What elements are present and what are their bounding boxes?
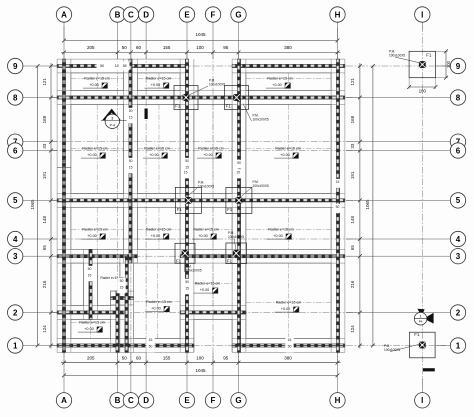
footing F1 I-9: [409, 51, 435, 77]
svg-text:Radier e=15 cm: Radier e=15 cm: [144, 147, 169, 151]
svg-text:+0.00: +0.00: [87, 153, 97, 157]
dimension chain top: [61, 45, 341, 54]
svg-text:+0.00: +0.00: [151, 234, 161, 238]
wall wall x90: [84, 249, 98, 319]
svg-text:Radier e=15 cm: Radier e=15 cm: [82, 147, 107, 151]
svg-text:Radier e=15 cm: Radier e=15 cm: [267, 77, 292, 81]
section symbol at I row 2: [414, 309, 433, 325]
svg-text:H: H: [335, 396, 341, 405]
svg-text:Radier e=15 cm: Radier e=15 cm: [275, 147, 300, 151]
svg-text:33: 33: [350, 143, 355, 149]
stem left 9: [23, 65, 57, 67]
svg-text:380: 380: [284, 45, 292, 50]
section cut bar below I-1: [423, 368, 435, 371]
svg-text:9: 9: [456, 62, 461, 71]
svg-text:50: 50: [336, 205, 340, 209]
stem bottom B: [117, 353, 119, 393]
label P.M. 100x100X5 near G-8 right: [243, 104, 269, 122]
wall col C upper: [124, 59, 138, 263]
grid bubble H: [330, 393, 345, 408]
svg-text:E: E: [184, 396, 190, 405]
wall row 1 G-H: [232, 339, 345, 353]
grid line col F: [212, 52, 214, 362]
svg-text:Radier e=15 cm: Radier e=15 cm: [198, 147, 223, 151]
stem right 8: [346, 97, 450, 99]
svg-text:100: 100: [419, 88, 427, 93]
svg-text:205: 205: [87, 45, 95, 50]
small dim bottom GH: [285, 337, 293, 353]
svg-text:148: 148: [42, 215, 47, 223]
svg-text:50: 50: [129, 109, 133, 113]
svg-text:50: 50: [62, 159, 66, 163]
stem right 2: [346, 312, 450, 314]
stem bottom H: [337, 353, 339, 393]
svg-text:E: E: [184, 10, 190, 19]
svg-text:3: 3: [456, 252, 461, 261]
svg-text:191: 191: [350, 171, 355, 179]
wall col C lower: [120, 256, 134, 352]
svg-text:D: D: [143, 10, 149, 19]
wall col E: [180, 59, 194, 352]
stem left 6: [23, 150, 57, 152]
svg-text:100x100X5: 100x100X5: [228, 235, 244, 239]
room centerlines G-H 8-5: [246, 104, 331, 193]
small dim x90: [85, 266, 93, 282]
room centerlines C-E 9-8: [138, 73, 180, 91]
stem right 9: [436, 65, 450, 67]
dimension footing I-9 100x100: [407, 49, 451, 93]
svg-text:H: H: [335, 10, 341, 19]
svg-text:3: 3: [13, 252, 18, 261]
grid line col D: [145, 52, 147, 362]
room centerlines C-E 8-5: [138, 104, 180, 193]
svg-text:A: A: [61, 396, 67, 405]
small dim A wall 50: [57, 159, 71, 168]
small dim E mid: [183, 158, 191, 174]
grid bubble 5: [450, 193, 465, 208]
svg-text:G: G: [235, 10, 241, 19]
svg-text:50: 50: [185, 280, 189, 284]
grid bubble 5: [8, 193, 23, 208]
grid bubble D: [138, 393, 153, 408]
grid bubble I: [415, 7, 430, 22]
svg-text:155: 155: [163, 355, 171, 360]
svg-text:8: 8: [456, 93, 461, 102]
radier outline room C-E 9-8: [137, 73, 180, 91]
wall row 1 A-E: [57, 339, 194, 353]
grid line col E: [186, 52, 188, 362]
svg-text:15: 15: [236, 171, 240, 175]
svg-text:I: I: [421, 396, 423, 405]
stem right 1: [436, 345, 450, 347]
grid line row 2: [51, 312, 360, 314]
stem bottom A: [63, 353, 65, 393]
stem left 3: [23, 255, 57, 257]
grid bubble 9: [450, 58, 465, 73]
svg-text:100x100X5: 100x100X5: [389, 53, 405, 57]
svg-text:95: 95: [223, 355, 229, 360]
grid line col B: [117, 52, 119, 362]
wall row 9 A-E: [57, 59, 189, 73]
room label C-E 9-8: [145, 77, 172, 89]
grid bubble 1: [450, 338, 465, 353]
room centerlines A-B 2-1: [71, 319, 111, 338]
svg-text:6: 6: [456, 146, 461, 155]
grid line row 3: [51, 255, 360, 257]
stem bottom G: [238, 353, 240, 393]
dimension chain bottom: [61, 355, 341, 364]
grid bubble H: [330, 7, 345, 22]
room label A-C 5-3: [81, 228, 108, 240]
wall row 5 A-H: [57, 194, 345, 208]
radier outline room E-G 8-5: [194, 104, 232, 193]
stem left 1: [23, 345, 57, 347]
grid bubble 6: [450, 143, 465, 158]
grid bubble 9: [8, 58, 23, 73]
grid bubble E: [179, 393, 194, 408]
stem right 7: [346, 141, 450, 143]
radier outline room E-G 5-3: [194, 207, 232, 249]
svg-text:5: 5: [456, 196, 461, 205]
svg-text:50: 50: [122, 45, 128, 50]
svg-text:C: C: [128, 10, 134, 19]
svg-text:9: 9: [13, 62, 18, 71]
grid bubble 2: [450, 305, 465, 320]
stem right 5: [346, 199, 450, 201]
svg-text:1: 1: [13, 341, 18, 350]
wall row 9 G-H: [232, 59, 345, 73]
stem bottom F: [212, 353, 214, 393]
svg-text:60: 60: [136, 45, 142, 50]
svg-text:15: 15: [184, 171, 188, 175]
footing F1 E-3: [175, 243, 195, 263]
room centerlines C-E 5-3: [138, 207, 180, 249]
svg-text:155: 155: [163, 45, 171, 50]
grid line row 8: [51, 97, 360, 99]
room label 90-C 3-2: [100, 276, 124, 280]
stem top A: [63, 22, 65, 59]
stem top D: [145, 22, 147, 59]
room label C-E 3-1: [145, 300, 172, 312]
grid bubble B: [110, 7, 125, 22]
room label A-C 9-8: [83, 77, 110, 89]
grid bubble D: [138, 7, 153, 22]
svg-text:100: 100: [196, 355, 204, 360]
radier outline room A-B 2-1: [71, 319, 111, 338]
room centerlines G-H 5-3: [246, 207, 331, 249]
svg-text:60: 60: [136, 355, 142, 360]
svg-text:100x100X5: 100x100X5: [253, 184, 269, 188]
small dim B low: [117, 278, 125, 294]
radier outline room G-H 3-1: [246, 263, 331, 339]
small dim E low: [183, 279, 191, 295]
room label C-E 5-3: [145, 228, 172, 240]
svg-text:+0.00: +0.00: [273, 234, 283, 238]
small dim G mid: [235, 160, 243, 176]
svg-text:50: 50: [185, 159, 189, 163]
room centerlines E-G 3-2: [194, 263, 232, 306]
svg-text:F1: F1: [426, 52, 432, 57]
svg-text:8: 8: [13, 93, 18, 102]
svg-text:50: 50: [129, 159, 133, 163]
svg-text:168: 168: [42, 115, 47, 123]
grid line row 5: [51, 199, 360, 201]
room centerlines G-H 3-1: [246, 263, 331, 339]
svg-text:Radier e=15 cm: Radier e=15 cm: [268, 228, 293, 232]
room centerlines C-E 3-1: [135, 263, 181, 339]
stem left 7: [23, 141, 57, 143]
grid line col H: [337, 52, 339, 362]
stem bottom E: [186, 353, 188, 393]
room centerlines A-C 9-8: [71, 73, 124, 91]
svg-text:100: 100: [196, 45, 204, 50]
svg-text:+0.00: +0.00: [151, 83, 161, 87]
grid bubble 8: [8, 90, 23, 105]
small dim C mid: [127, 158, 135, 174]
small dim bottom mid: [146, 337, 154, 353]
svg-text:15: 15: [129, 165, 133, 169]
grid line row 4: [51, 238, 360, 240]
grid bubble C: [123, 7, 138, 22]
svg-text:50: 50: [122, 355, 128, 360]
grid line row 7: [51, 141, 360, 143]
grid bubble C: [123, 393, 138, 408]
stem top C: [130, 22, 132, 59]
label P.M. 100x100X5 near G-3 above: [228, 231, 244, 250]
grid line col G: [238, 52, 240, 362]
dimension overall top 1045: [62, 26, 339, 42]
wall col B lower: [111, 291, 125, 352]
wall row 2 E-G: [180, 306, 246, 320]
grid bubble 7: [450, 134, 465, 149]
grid line row 1: [51, 345, 446, 347]
footing F1 G-5: [226, 187, 252, 213]
room label G-H 5-3: [267, 228, 294, 240]
svg-text:Radier e=15 cm: Radier e=15 cm: [276, 301, 301, 305]
stem top G: [238, 22, 240, 59]
small dim H row5: [333, 179, 341, 188]
svg-text:D: D: [143, 396, 149, 405]
footing F1 I-1: [410, 332, 436, 358]
svg-text:124: 124: [42, 325, 47, 333]
footing F1 E-8: [174, 86, 198, 110]
grid bubble 8: [450, 90, 465, 105]
svg-text:Radier e=15 cm: Radier e=15 cm: [146, 228, 171, 232]
svg-text:121: 121: [42, 78, 47, 86]
wall col A: [57, 59, 71, 352]
svg-text:+0.00: +0.00: [198, 234, 208, 238]
svg-text:A: A: [61, 10, 67, 19]
room label G-H 3-1: [275, 301, 302, 313]
svg-text:G: G: [235, 396, 241, 405]
svg-text:P4: P4: [419, 320, 423, 324]
stem bottom C: [130, 353, 132, 393]
svg-text:P-4: P-4: [110, 123, 115, 127]
wall row 3 A-C: [57, 249, 137, 263]
svg-text:6: 6: [13, 146, 18, 155]
dimension chain left: [42, 63, 53, 349]
grid bubble 3: [450, 249, 465, 264]
radier outline room A-C 8-5: [71, 104, 124, 193]
room label G-H 9-8: [266, 77, 293, 89]
small dim H mid50: [333, 204, 341, 213]
radier outline room A-90 3-2: [71, 263, 84, 306]
radier outline recess E-G below row 2: [194, 319, 232, 352]
svg-text:+0.00: +0.00: [281, 307, 291, 311]
dimension overall right 1065: [365, 64, 375, 347]
room label A-B 2-1: [78, 321, 105, 333]
stem right 4: [346, 238, 450, 240]
svg-text:148: 148: [350, 215, 355, 223]
svg-text:15: 15: [120, 285, 124, 289]
svg-text:+0.00: +0.00: [200, 288, 210, 292]
label P.M. 100x100X5 near I-1: [384, 344, 421, 352]
label P.M. 100x100X5 near G-5: [241, 180, 269, 197]
svg-text:191: 191: [42, 171, 47, 179]
svg-text:F: F: [211, 10, 216, 19]
grid bubble A: [56, 7, 71, 22]
dimension overall bottom 1045: [62, 368, 339, 377]
stem top F: [212, 22, 214, 59]
grid line col A: [63, 52, 65, 362]
svg-text:4: 4: [456, 235, 461, 244]
radier outline room G-H 8-5: [246, 104, 331, 193]
grid bubble 4: [450, 231, 465, 246]
svg-text:100x100X5: 100x100X5: [253, 117, 269, 121]
small dim C top: [127, 108, 135, 124]
room centerlines A-C 8-5: [71, 104, 124, 193]
svg-text:I: I: [421, 10, 423, 19]
svg-text:50: 50: [288, 344, 292, 348]
svg-text:100x100X5: 100x100X5: [186, 268, 202, 272]
svg-text:15: 15: [129, 115, 133, 119]
svg-text:F1: F1: [414, 332, 420, 337]
svg-text:5: 5: [13, 196, 18, 205]
svg-text:15: 15: [185, 165, 189, 169]
grid bubble F: [205, 393, 220, 408]
svg-text:+0.00: +0.00: [87, 234, 97, 238]
room label E-G 8-5: [197, 147, 224, 159]
svg-text:Radier e=15 cm: Radier e=15 cm: [193, 228, 218, 232]
svg-text:4: 4: [13, 235, 18, 244]
svg-text:216: 216: [42, 280, 47, 288]
svg-text:B: B: [115, 396, 121, 405]
stem bottom I: [421, 378, 423, 393]
svg-text:+0.00: +0.00: [272, 83, 282, 87]
footing F1 G-3: [226, 243, 247, 264]
svg-text:50: 50: [100, 64, 104, 68]
stem right 3: [346, 255, 450, 257]
footing F1 G-8: [225, 86, 249, 110]
radier outline room A-C 9-8: [71, 73, 124, 91]
svg-text:+0.00: +0.00: [151, 306, 161, 310]
section symbol 3/P-4 near C: [101, 109, 127, 129]
wall col H: [331, 59, 345, 352]
room centerlines G-H 9-8: [246, 73, 331, 91]
svg-text:Radier e=15 cm: Radier e=15 cm: [195, 282, 220, 286]
grid bubble 1: [8, 338, 23, 353]
grid bubble G: [231, 7, 246, 22]
svg-text:F1: F1: [176, 259, 182, 264]
svg-text:F1: F1: [177, 207, 183, 212]
svg-text:65: 65: [350, 245, 355, 251]
room label G-H 8-5: [274, 147, 301, 159]
grid bubble 6: [8, 143, 23, 158]
svg-text:F: F: [211, 396, 216, 405]
svg-text:50: 50: [120, 279, 124, 283]
room label A-C 8-5: [81, 147, 108, 159]
svg-text:+0.00: +0.00: [149, 153, 159, 157]
radier outline room C-E 3-1: [134, 263, 180, 339]
svg-text:121: 121: [350, 78, 355, 86]
wall row 8 A-H: [57, 91, 345, 105]
svg-text:100x100X5: 100x100X5: [198, 184, 214, 188]
svg-text:B: B: [115, 10, 121, 19]
svg-text:F1: F1: [175, 103, 181, 108]
grid line row 6: [51, 150, 360, 152]
label P.M. 100x100X5 near I-9: [389, 50, 421, 64]
svg-text:33: 33: [42, 143, 47, 149]
grid bubble 3: [8, 249, 23, 264]
grid bubble B: [110, 393, 125, 408]
label P.M. 100x100X5 near E-5: [187, 181, 215, 198]
room centerlines E-G 5-3: [194, 207, 232, 249]
radier outline room G-H 5-3: [246, 207, 331, 249]
svg-text:+0.00: +0.00: [84, 327, 94, 331]
grid bubble G: [231, 393, 246, 408]
dimension overall left 1065: [30, 64, 39, 347]
stem top B: [117, 22, 119, 59]
svg-text:50: 50: [149, 344, 153, 348]
radier outline room G-H 9-8: [246, 73, 331, 91]
stem top E: [186, 22, 188, 59]
radier outline room 90-C 3-2 (L shaped): [97, 263, 120, 306]
stem left 8: [23, 97, 57, 99]
svg-text:Radier e=15 cm: Radier e=15 cm: [79, 321, 104, 325]
svg-text:F1: F1: [226, 103, 232, 108]
svg-text:1045: 1045: [195, 368, 206, 373]
svg-text:2: 2: [13, 308, 18, 317]
svg-text:100x100X5: 100x100X5: [209, 82, 225, 86]
stem bottom D: [145, 353, 147, 393]
svg-text:F1: F1: [227, 207, 233, 212]
grid line row 9: [51, 65, 446, 67]
svg-text:124: 124: [350, 325, 355, 333]
svg-text:50: 50: [88, 267, 92, 271]
small dim row9 50/10 window: [97, 62, 130, 71]
svg-text:15: 15: [185, 286, 189, 290]
wall row 3 E-H: [180, 249, 345, 263]
room centerlines A-C 5-3: [71, 207, 124, 249]
svg-text:1: 1: [420, 315, 422, 319]
svg-text:Radier e=15 cm: Radier e=15 cm: [146, 300, 171, 304]
svg-text:C: C: [128, 396, 134, 405]
room label E-G 5-3: [192, 228, 219, 240]
dimension chain right: [350, 63, 362, 349]
grid bubble I: [415, 393, 430, 408]
wall col G: [232, 59, 246, 352]
svg-text:1: 1: [456, 341, 461, 350]
room centerlines E-G 8-5: [194, 104, 232, 193]
radier outline room A-C 5-3: [71, 207, 124, 249]
svg-text:Radier e=15 cm: Radier e=15 cm: [146, 77, 171, 81]
label P.M. 100x100X5 near E-3 below: [185, 258, 202, 273]
svg-text:10: 10: [115, 64, 119, 68]
svg-text:205: 205: [87, 355, 95, 360]
grid bubble A: [56, 393, 71, 408]
svg-text:168: 168: [350, 115, 355, 123]
svg-text:F1: F1: [227, 259, 233, 264]
